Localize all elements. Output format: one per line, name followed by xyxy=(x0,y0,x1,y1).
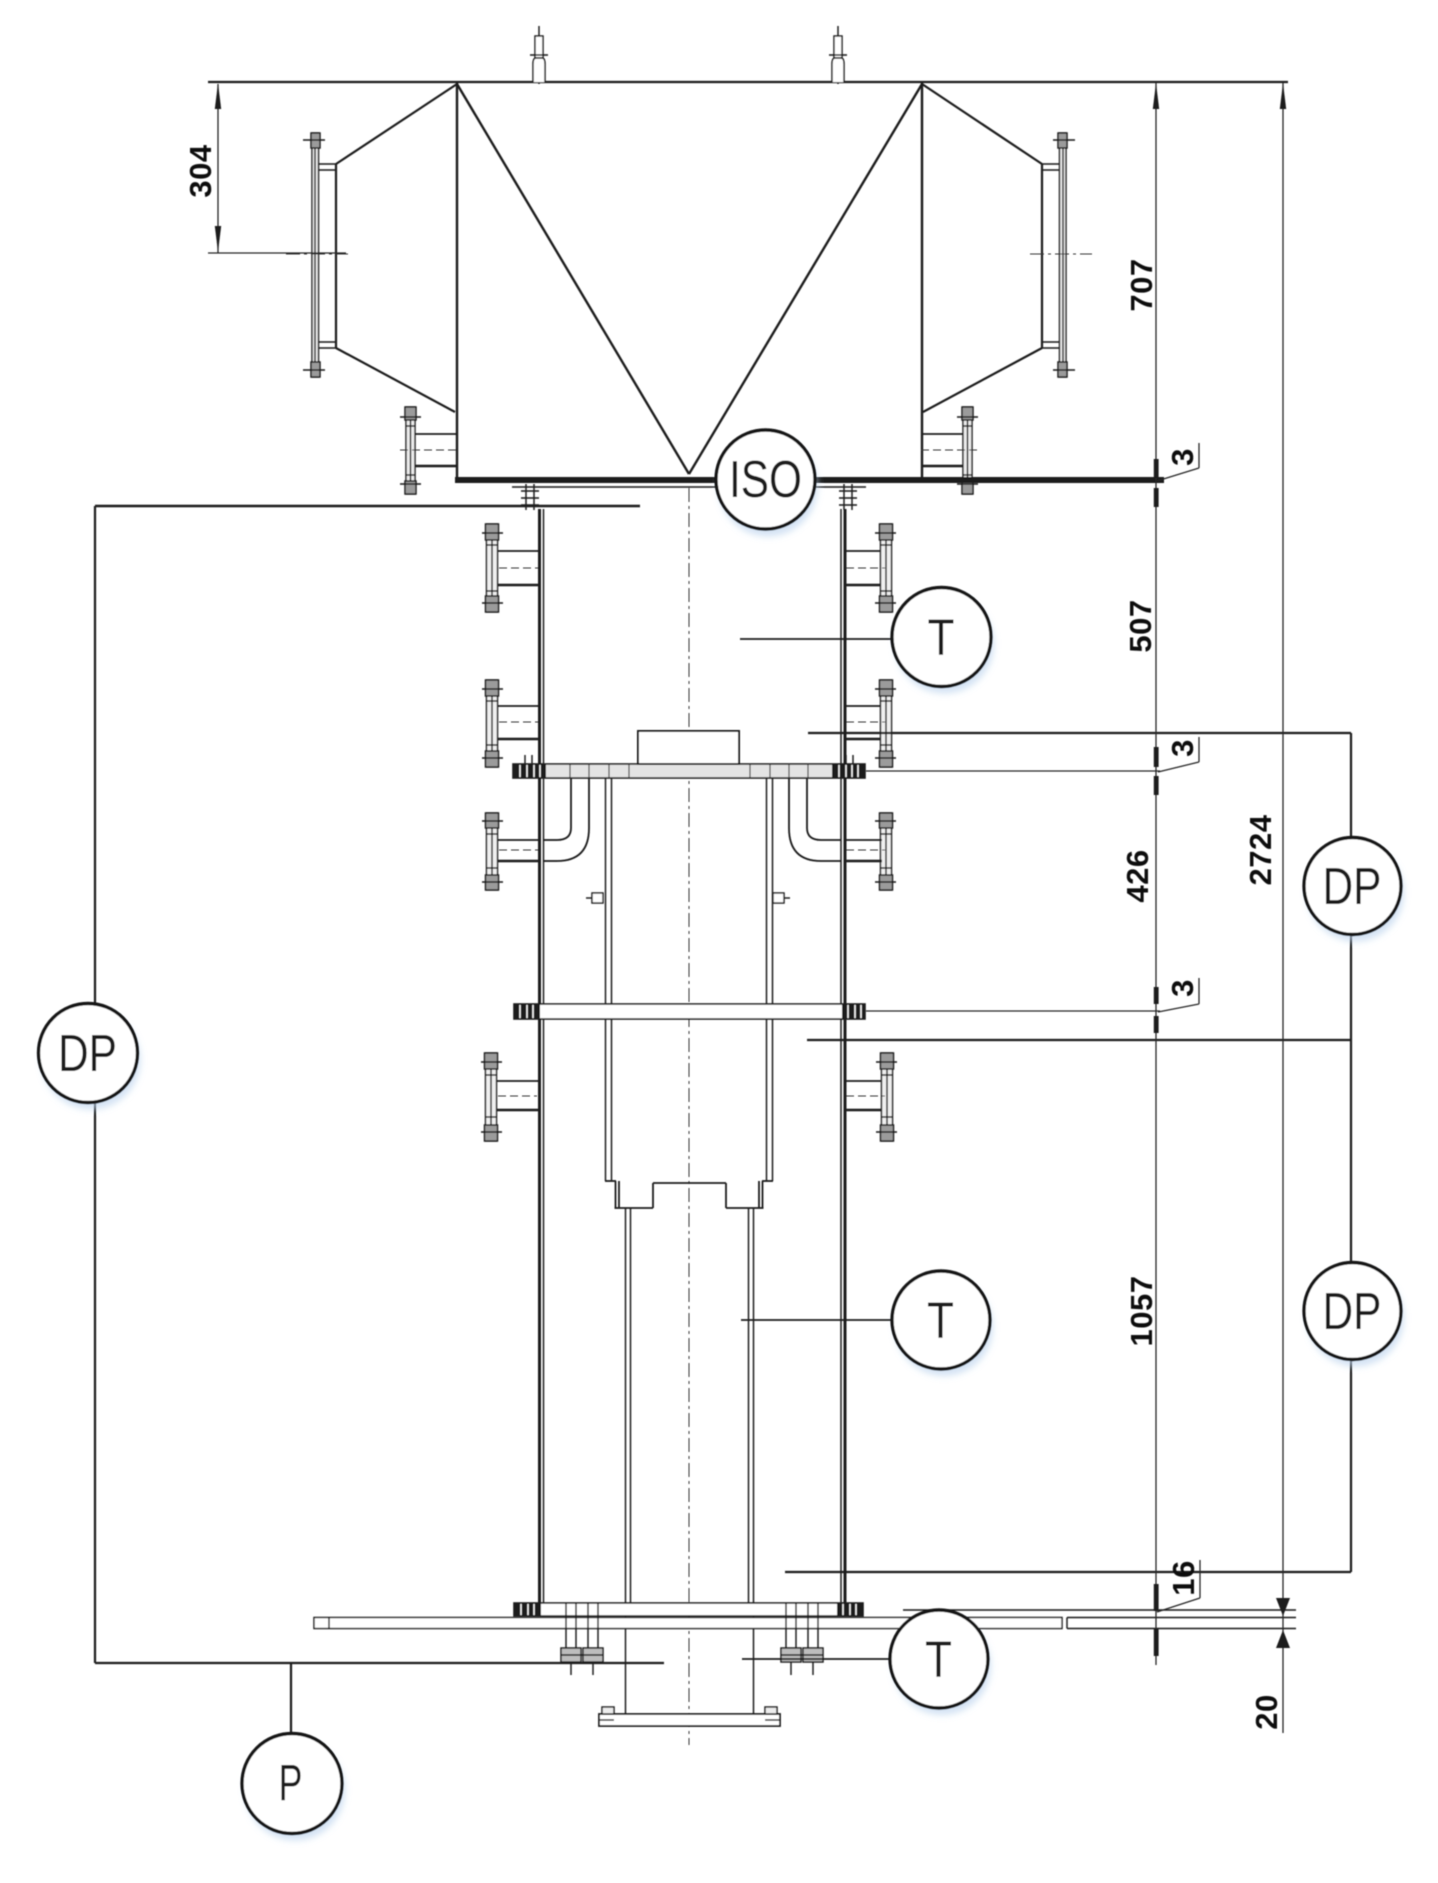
T3 leader xyxy=(742,1658,892,1660)
right drain nozzle pipe xyxy=(921,433,963,435)
svg-text:3: 3 xyxy=(1165,979,1200,997)
column centerline xyxy=(688,488,690,1745)
right tap line middle xyxy=(807,1039,1351,1041)
bottom support plate 16mm xyxy=(514,1603,863,1616)
instrument DP left xyxy=(39,1004,141,1110)
lifting stud left xyxy=(530,26,548,84)
left inlet centerline xyxy=(286,253,348,255)
bottom outlet flange xyxy=(599,1707,780,1726)
svg-text:T: T xyxy=(927,1292,954,1349)
instrument ISO xyxy=(716,430,818,537)
right instrument riser xyxy=(1350,733,1352,1572)
svg-text:3: 3 xyxy=(1165,448,1200,466)
dimension 2724 xyxy=(1243,83,1290,1616)
right inlet centerline xyxy=(1030,253,1092,255)
svg-text:304: 304 xyxy=(183,144,218,197)
svg-text:1057: 1057 xyxy=(1124,1276,1159,1347)
column top bolts right xyxy=(839,484,857,510)
left bottom tap line xyxy=(95,1662,664,1664)
dimension 3 (upper tray) xyxy=(1154,737,1200,795)
column right wall xyxy=(840,509,842,1603)
left impulse tap line xyxy=(95,505,640,507)
right elbow pipe xyxy=(789,778,841,861)
nozzle row2 right xyxy=(845,680,896,767)
column top bolts left xyxy=(521,484,539,510)
left inlet flange xyxy=(303,133,325,377)
column left wall xyxy=(538,509,541,1603)
lower tube walls xyxy=(626,1208,754,1714)
inner tube walls upper xyxy=(606,778,773,1181)
tube step reducer xyxy=(605,1181,773,1208)
anchor bolts left xyxy=(561,1603,603,1675)
dimension line B (2724/20) xyxy=(1282,82,1284,1733)
svg-text:426: 426 xyxy=(1120,849,1155,902)
instrument P xyxy=(242,1734,345,1841)
right drain nozzle flange xyxy=(957,407,978,494)
V baffle right leg xyxy=(689,84,922,474)
plate1 stud bolts above xyxy=(525,755,853,764)
left drain nozzle pipe xyxy=(415,433,457,435)
plenum box right wall xyxy=(921,82,923,477)
svg-text:DP: DP xyxy=(1323,858,1382,916)
T2 leader xyxy=(741,1319,895,1321)
nozzle row1 right xyxy=(845,524,896,612)
plate underside extension line xyxy=(903,1609,1296,1611)
V baffle left leg xyxy=(457,84,689,474)
tray plate extension lower xyxy=(866,1010,1160,1012)
svg-text:ISO: ISO xyxy=(729,451,802,509)
top cover line xyxy=(208,81,1288,83)
dimension line A (707/507/426/1057) xyxy=(1155,82,1157,1665)
left instrument drop line xyxy=(94,506,96,1004)
svg-text:T: T xyxy=(928,609,955,666)
P branch line xyxy=(290,1663,292,1732)
anchor bolts right xyxy=(781,1603,823,1675)
instrument DP right lower xyxy=(1304,1263,1404,1367)
instrument DP right upper xyxy=(1304,838,1404,942)
dimension 304 xyxy=(183,83,346,253)
right tap line upper (3mm) xyxy=(808,732,1351,734)
plenum bottom plate (thick) xyxy=(455,477,1164,483)
svg-text:20: 20 xyxy=(1249,1694,1284,1729)
dimension 707 xyxy=(1124,83,1159,312)
tube support lug right xyxy=(773,893,790,903)
instrument T2 xyxy=(892,1271,993,1376)
svg-text:16: 16 xyxy=(1166,1560,1201,1595)
sampling tray plate lower xyxy=(514,1004,865,1019)
svg-text:DP: DP xyxy=(58,1025,117,1083)
dimension 16 xyxy=(1154,1560,1201,1656)
svg-text:P: P xyxy=(279,1754,303,1811)
svg-text:DP: DP xyxy=(1323,1283,1382,1341)
tray plate extension upper xyxy=(866,770,1160,772)
tube support lug left xyxy=(586,893,603,903)
svg-text:2724: 2724 xyxy=(1243,814,1278,885)
nozzle row2 left xyxy=(482,680,540,767)
nozzle row3 right (elbow flange) xyxy=(845,813,896,890)
nozzle row1 left xyxy=(482,524,540,612)
right tap line lower xyxy=(785,1571,1351,1573)
lifting stud right xyxy=(829,26,847,84)
dimension 20 xyxy=(1249,1630,1290,1730)
nozzle row4 left xyxy=(481,1053,540,1141)
wide base plate xyxy=(314,1618,1062,1629)
svg-text:507: 507 xyxy=(1123,599,1158,652)
left drain nozzle flange xyxy=(400,407,421,494)
instrument T1 xyxy=(892,588,994,694)
plenum box left wall xyxy=(456,82,458,477)
left elbow pipe xyxy=(543,778,589,861)
instrument T3 xyxy=(890,1610,991,1715)
tray inlet nozzle box xyxy=(638,731,739,764)
base plate extension lines right xyxy=(1067,1618,1296,1629)
svg-text:3: 3 xyxy=(1165,739,1200,757)
T1 leader xyxy=(740,638,895,640)
sampling tray plate upper xyxy=(513,764,865,778)
svg-text:T: T xyxy=(925,1631,952,1688)
left inlet duct xyxy=(318,84,457,412)
right inlet duct xyxy=(922,84,1060,412)
dimension 3 (lower tray) xyxy=(1154,978,1200,1033)
flange plate stripe details xyxy=(406,426,972,1117)
nozzle row4 right xyxy=(845,1053,897,1141)
right inlet flange xyxy=(1053,133,1075,377)
dimension 3 (top plate) xyxy=(1154,443,1200,507)
nozzle row3 left (elbow flange) xyxy=(482,813,540,890)
column top flange line xyxy=(512,486,866,488)
svg-text:707: 707 xyxy=(1124,258,1159,311)
